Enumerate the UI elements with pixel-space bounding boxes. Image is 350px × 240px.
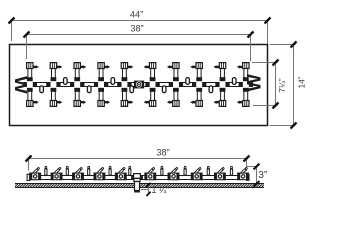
valve body V3 with pilot jet [73, 167, 84, 180]
dimension 38 inch (top view) [24, 23, 254, 61]
orifice capsule O4 [111, 78, 115, 85]
burner jet J1 (vertical) [45, 166, 48, 175]
valve body V8 with pilot jet [191, 167, 202, 180]
orifice capsule O1 [40, 86, 44, 93]
cross fitting C1 with twin burner branches [23, 63, 39, 107]
burner jet J3 (vertical) [87, 166, 90, 175]
orifice capsule O3 [87, 86, 91, 93]
orifice capsule O2 [64, 78, 68, 85]
orifice capsule O8 [209, 86, 213, 93]
valve body V6 with pilot jet [145, 167, 156, 180]
cross fitting C7 with twin burner branches [167, 63, 183, 107]
orifice capsule O9 [232, 78, 236, 85]
cross fitting C10 with twin burner branches [237, 63, 253, 107]
dimension 1 1/4 inch [141, 183, 169, 196]
cross fitting C9 with twin burner branches [214, 63, 230, 107]
flex connector squiggle (right end) [244, 74, 266, 92]
cross fitting C8 with twin burner branches [190, 63, 206, 107]
pan outline rectangle (top view) [10, 45, 268, 126]
valve body V5 with pilot jet [115, 167, 126, 180]
valve body V1 with pilot jet [30, 167, 41, 180]
svg-text:38”: 38” [130, 23, 143, 33]
dimension 38 inch (front view) [26, 148, 250, 171]
svg-text:W: W [11, 76, 30, 93]
valve body V9 with pilot jet [215, 167, 226, 180]
burner jet J6 (vertical) [161, 166, 164, 175]
burner jet J7 (vertical) [184, 166, 187, 175]
orifice capsule O6 [162, 86, 166, 93]
cross fitting C4 with twin burner branches [94, 63, 110, 107]
orifice capsule O7 [186, 78, 190, 85]
valve body V2 with pilot jet [51, 167, 62, 180]
flex connector squiggle (left end) [11, 76, 30, 93]
burner jet J5 (vertical) [129, 166, 132, 175]
manifold pipe (top view) [26, 83, 249, 87]
dimension 3 inch [246, 164, 268, 187]
mounting surface (hatched strip) [15, 183, 264, 187]
union fitting U1 (gas inlet tee, top view) [134, 81, 144, 89]
svg-text:3”: 3” [258, 170, 268, 181]
cross fitting C2 with twin burner branches [46, 63, 62, 107]
cross fitting C3 with twin burner branches [70, 63, 86, 107]
dimension 44 inch [9, 9, 271, 44]
dimension 14 inch [270, 42, 307, 129]
gas inlet drop tee (front view) [131, 174, 143, 193]
cross fitting C5 with twin burner branches [117, 63, 133, 107]
svg-text:1 ¼”: 1 ¼” [152, 185, 170, 195]
burner jet J4 (vertical) [109, 166, 112, 175]
svg-text:W: W [244, 74, 266, 92]
orifice capsule O5 [130, 86, 134, 93]
svg-text:14”: 14” [297, 76, 307, 88]
valve body V4 with pilot jet [94, 167, 105, 180]
valve body V10 with pilot jet [238, 167, 249, 180]
svg-text:7¼”: 7¼” [277, 78, 287, 93]
burner jet J9 (vertical) [230, 166, 233, 175]
dimension 7 1/4 inch [252, 60, 287, 109]
manifold pipe (front view) [27, 174, 249, 180]
burner jet J8 (vertical) [207, 166, 210, 175]
svg-text:38”: 38” [156, 148, 169, 158]
svg-text:44”: 44” [130, 9, 143, 19]
valve body V7 with pilot jet [168, 167, 179, 180]
burner jet J2 (vertical) [66, 166, 69, 175]
cross fitting C6 with twin burner branches [144, 63, 160, 107]
